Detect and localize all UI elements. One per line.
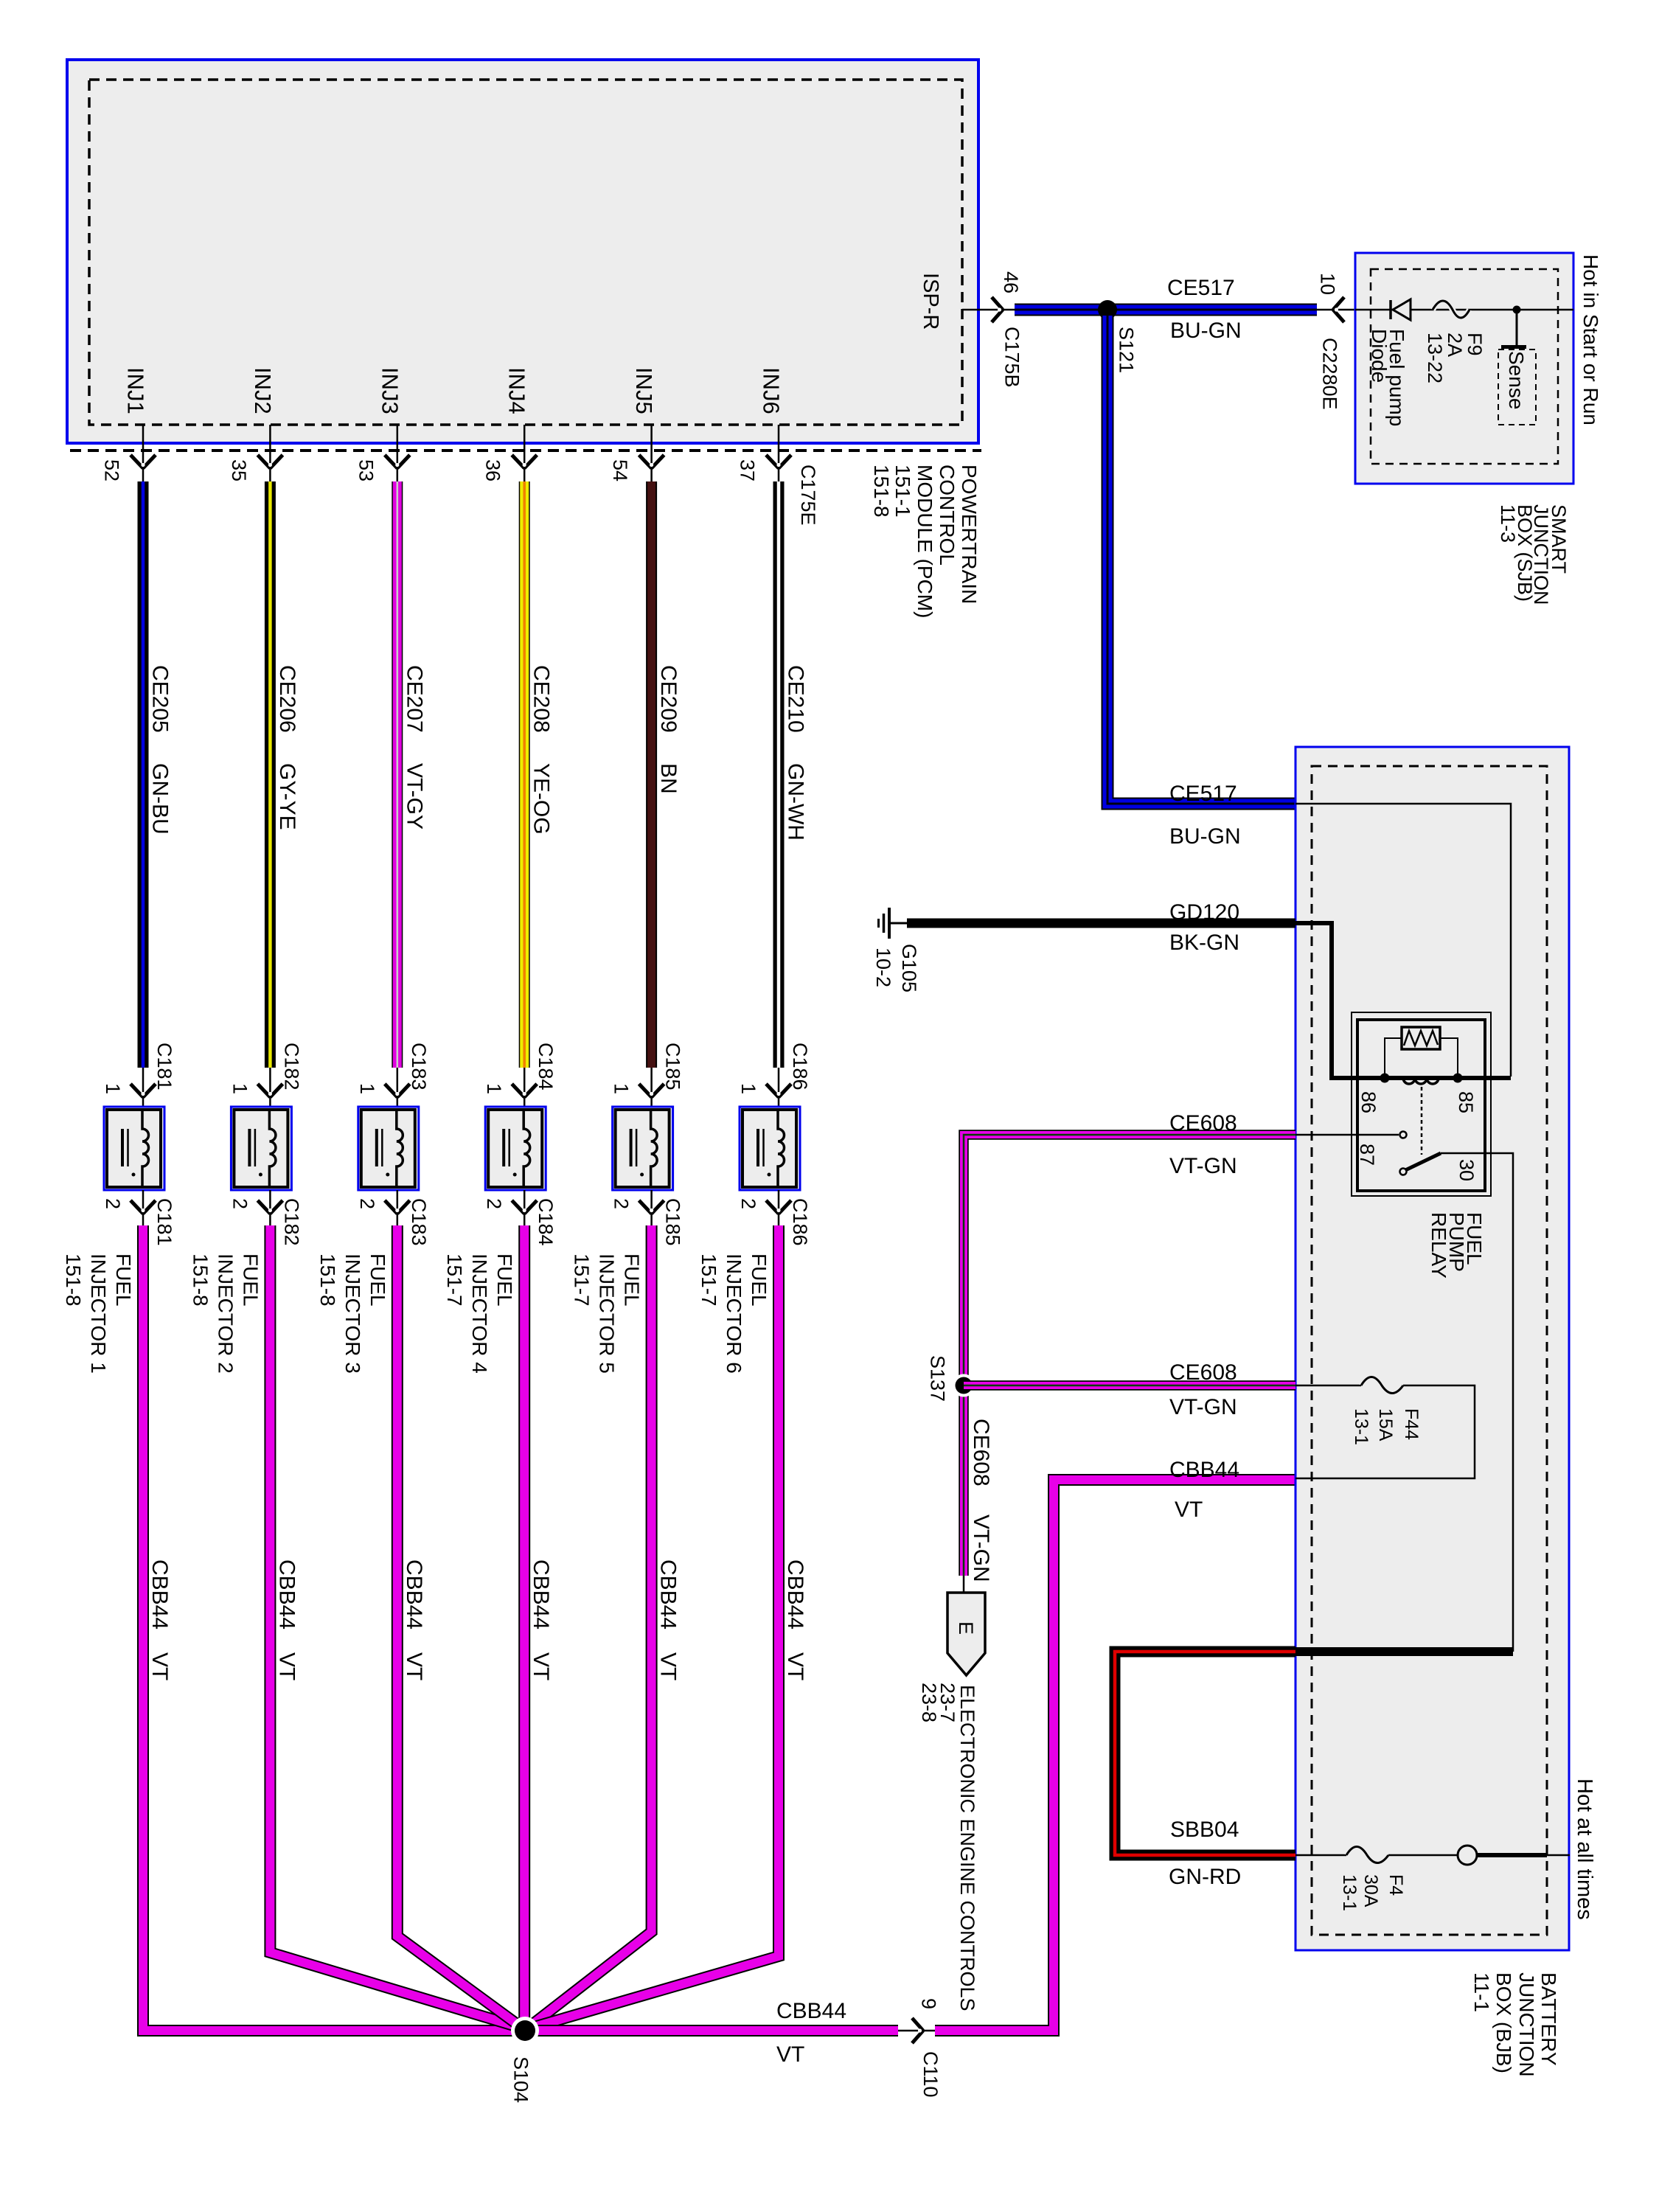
connector arrow C181 pin 1 <box>131 1084 143 1097</box>
svg-text:CBB44: CBB44 <box>274 1559 299 1630</box>
svg-text:C183: C183 <box>408 1198 430 1246</box>
svg-text:1: 1 <box>229 1083 251 1094</box>
wire SBB04 GN-RD loop outside BJB <box>1115 1652 1295 1855</box>
svg-text:ELECTRONIC ENGINE CONTROLS: ELECTRONIC ENGINE CONTROLS <box>956 1685 978 2011</box>
svg-text:CBB44: CBB44 <box>776 1999 846 2023</box>
svg-text:S121: S121 <box>1116 327 1138 373</box>
wire CE608 VT-GN from relay pin 87 to S137 <box>964 1135 1295 1576</box>
PCM pin stub wire INJ3 <box>397 425 399 481</box>
svg-text:Diode: Diode <box>1368 329 1391 383</box>
wire CE206 GY-YE (PCM pin 35 to fuel injector 2) <box>265 481 276 1068</box>
connector arrow C181 pin 2 <box>131 1200 143 1214</box>
connector arrow C183 pin 2 <box>385 1200 397 1214</box>
wire GD120 BK-GN ground wire <box>907 919 1295 928</box>
svg-text:CE207: CE207 <box>402 665 426 733</box>
injector 2 solenoid coil <box>269 1110 276 1187</box>
svg-text:INJ2: INJ2 <box>250 367 276 414</box>
svg-text:FUEL: FUEL <box>748 1253 771 1307</box>
connector arrow C182 pin 1 <box>257 1084 270 1097</box>
inline connector E (to electronic engine controls) <box>947 1593 985 1675</box>
svg-text:F44: F44 <box>1401 1408 1422 1440</box>
svg-text:2: 2 <box>102 1198 124 1209</box>
svg-text:151-7: 151-7 <box>698 1253 720 1307</box>
connector arrow C183 pin 1 <box>385 1084 397 1097</box>
svg-text:VT-GN: VT-GN <box>969 1514 993 1582</box>
wire CBB44 VT from C110 to battery junction box fuse F44 <box>935 1480 1295 2031</box>
svg-text:VT: VT <box>1175 1498 1203 1522</box>
node dot at SJB sense tap <box>1513 306 1521 314</box>
wire inside SJB to Hot in Start or Run <box>1355 309 1573 311</box>
svg-text:86: 86 <box>1357 1091 1380 1113</box>
battery feed wire Hot at all times <box>1477 1853 1547 1857</box>
wire CBB44 VT return from injector 3 to splice S104 <box>397 1225 520 2026</box>
svg-text:Hot in Start or Run: Hot in Start or Run <box>1579 254 1602 425</box>
fuse F44 15A symbol <box>1361 1377 1403 1394</box>
svg-text:151-7: 151-7 <box>571 1253 594 1307</box>
connector arrow C184 pin 2 <box>512 1200 524 1214</box>
svg-text:C182: C182 <box>280 1043 302 1091</box>
svg-text:GN-BU: GN-BU <box>148 763 173 835</box>
svg-text:C182: C182 <box>280 1198 302 1246</box>
injector 3 polarity dot <box>386 1173 389 1177</box>
svg-text:CE608: CE608 <box>1169 1360 1237 1385</box>
svg-text:CE608: CE608 <box>1169 1111 1237 1135</box>
svg-text:151-8: 151-8 <box>316 1253 339 1307</box>
svg-text:CE206: CE206 <box>275 665 299 733</box>
svg-text:BOX (BJB): BOX (BJB) <box>1492 1972 1515 2073</box>
svg-text:RELAY: RELAY <box>1427 1212 1450 1279</box>
svg-text:37: 37 <box>737 459 759 481</box>
svg-text:1: 1 <box>102 1083 124 1094</box>
svg-text:53: 53 <box>355 459 377 481</box>
fuse F4 30A symbol <box>1346 1847 1388 1863</box>
wire inside BJB from fuse F44 to CBB44 exit <box>1295 1385 1475 1478</box>
wire from relay pin 30 down to SBB04 feed <box>1441 1153 1513 1652</box>
connector arrow C185 pin 2 <box>639 1200 652 1214</box>
svg-text:1: 1 <box>483 1083 505 1094</box>
pin lead into injector 1 <box>142 1068 145 1107</box>
svg-text:INJECTOR 2: INJECTOR 2 <box>214 1253 237 1374</box>
connector arrow C182 pin 2 <box>257 1200 270 1214</box>
svg-text:CBB44: CBB44 <box>656 1559 681 1630</box>
svg-text:C2280E: C2280E <box>1319 338 1341 410</box>
wire CE209 BN (PCM pin 54 to fuel injector 5) <box>646 481 657 1068</box>
svg-text:C185: C185 <box>662 1198 684 1246</box>
relay suppression resistor <box>1402 1027 1440 1049</box>
svg-text:CBB44: CBB44 <box>783 1559 807 1630</box>
Sense dashed box <box>1498 349 1536 425</box>
svg-text:C184: C184 <box>535 1043 557 1091</box>
injector 6 polarity dot <box>768 1173 771 1177</box>
svg-text:23-8: 23-8 <box>918 1683 940 1722</box>
fuel injector 2 component box <box>231 1107 291 1190</box>
svg-text:FUEL: FUEL <box>239 1253 262 1307</box>
svg-text:35: 35 <box>228 459 250 481</box>
injector 5 polarity dot <box>640 1173 644 1177</box>
svg-text:Hot at all times: Hot at all times <box>1573 1778 1596 1920</box>
wire inside BJB from CE608 to fuse F44 <box>1295 1385 1361 1387</box>
svg-text:POWERTRAIN: POWERTRAIN <box>958 465 981 604</box>
wire CBB44 VT return from injector 5 to splice S104 <box>530 1225 652 2026</box>
connector arrow pin 54 <box>639 455 652 468</box>
svg-text:S104: S104 <box>510 2056 532 2103</box>
wire inside BJB from CE517 to relay coil pin 85 <box>1295 804 1511 1077</box>
ground symbol G105 <box>888 908 891 939</box>
svg-text:46: 46 <box>1000 271 1022 293</box>
svg-text:85: 85 <box>1455 1091 1477 1113</box>
svg-text:FUEL: FUEL <box>112 1253 135 1307</box>
connector arrow pin 35 <box>257 455 270 468</box>
svg-text:10: 10 <box>1317 273 1339 295</box>
pin lead out of injector 5 <box>650 1190 653 1225</box>
injector 1 polarity dot <box>132 1173 136 1177</box>
SMART JUNCTION BOX (SJB) <box>1355 253 1573 484</box>
svg-text:1: 1 <box>737 1083 759 1094</box>
connector arrow C186 pin 2 <box>766 1200 779 1214</box>
SJB inner dashed border <box>1371 269 1558 464</box>
svg-text:S137: S137 <box>927 1355 949 1402</box>
injector 3 solenoid coil <box>397 1110 403 1187</box>
splice S104 junction dot <box>511 2017 539 2045</box>
svg-text:BU-GN: BU-GN <box>1170 319 1242 343</box>
pin lead into SJB <box>1317 309 1357 311</box>
svg-text:11-1: 11-1 <box>1470 1972 1493 2012</box>
svg-text:54: 54 <box>609 459 631 481</box>
svg-text:VT: VT <box>529 1652 553 1680</box>
svg-text:VT: VT <box>783 1652 807 1680</box>
svg-text:INJECTOR 3: INJECTOR 3 <box>341 1253 364 1374</box>
injector 3 solenoid core bars <box>375 1129 378 1166</box>
pin lead out of injector 3 <box>397 1190 399 1225</box>
svg-text:GN-RD: GN-RD <box>1169 1865 1241 1889</box>
svg-text:CBB44: CBB44 <box>147 1559 172 1630</box>
wire CE208 YE-OG (PCM pin 36 to fuel injector 4) <box>519 481 530 1068</box>
svg-text:JUNCTION: JUNCTION <box>1515 1972 1538 2077</box>
fuel injector 4 component box <box>485 1107 546 1190</box>
svg-text:1: 1 <box>611 1083 633 1094</box>
svg-text:C186: C186 <box>789 1198 811 1246</box>
wire from fuse F4 to battery feed terminal <box>1388 1854 1458 1857</box>
injector 1 solenoid core bars <box>121 1129 124 1166</box>
svg-text:SBB04: SBB04 <box>1170 1818 1239 1842</box>
injector 2 solenoid core bars <box>248 1129 251 1166</box>
svg-text:CE517: CE517 <box>1167 276 1235 300</box>
svg-text:151-8: 151-8 <box>870 465 893 518</box>
svg-text:36: 36 <box>482 459 504 481</box>
connector arrow C184 pin 1 <box>512 1084 524 1097</box>
svg-text:INJ1: INJ1 <box>123 367 149 414</box>
splice S121 junction dot <box>1098 300 1117 319</box>
svg-text:C183: C183 <box>408 1043 430 1091</box>
svg-text:INJ4: INJ4 <box>504 367 530 414</box>
svg-text:CE517: CE517 <box>1169 782 1237 806</box>
svg-text:Sense: Sense <box>1505 351 1528 409</box>
pin lead through connector C110 <box>898 2030 935 2032</box>
svg-text:INJ6: INJ6 <box>759 367 785 414</box>
svg-text:CE210: CE210 <box>784 665 808 733</box>
BJB inner dashed border <box>1312 766 1547 1935</box>
svg-text:C175B: C175B <box>1001 327 1023 388</box>
connector arrow C186 pin 1 <box>766 1084 779 1097</box>
fuel pump diode symbol <box>1389 300 1392 319</box>
svg-text:52: 52 <box>101 459 123 481</box>
PCM pin stub wire INJ4 <box>524 425 526 481</box>
sense tap wire <box>1516 310 1518 345</box>
svg-text:BU-GN: BU-GN <box>1169 824 1241 849</box>
PCM pin stub wire INJ6 <box>778 425 780 481</box>
wire CE207 VT-GY (PCM pin 53 to fuel injector 3) <box>392 481 403 1068</box>
svg-text:FUEL: FUEL <box>621 1253 644 1307</box>
svg-text:13-1: 13-1 <box>1339 1874 1360 1911</box>
injector 2 polarity dot <box>259 1173 262 1177</box>
svg-text:E: E <box>955 1621 977 1635</box>
svg-text:VT: VT <box>147 1652 172 1680</box>
svg-text:VT: VT <box>402 1652 426 1680</box>
relay coil windings <box>1403 1078 1439 1084</box>
svg-text:15A: 15A <box>1375 1408 1396 1441</box>
svg-text:CE209: CE209 <box>656 665 681 733</box>
svg-text:CBB44: CBB44 <box>1169 1458 1239 1482</box>
svg-text:30: 30 <box>1455 1159 1478 1181</box>
relay coil junction dot pin 86 <box>1380 1074 1390 1083</box>
fuel injector 6 component box <box>740 1107 800 1190</box>
svg-text:CBB44: CBB44 <box>529 1559 553 1630</box>
svg-text:30A: 30A <box>1360 1874 1381 1907</box>
PCM pin stub wire INJ5 <box>650 425 653 481</box>
pin lead out of injector 6 <box>778 1190 780 1225</box>
splice S137 junction dot <box>953 1374 975 1397</box>
svg-text:VT-GN: VT-GN <box>1169 1154 1237 1178</box>
relay switch blade <box>1400 1169 1407 1175</box>
fuel injector 1 component box <box>104 1107 164 1190</box>
lead into connector E <box>963 1576 965 1594</box>
wire inside BJB from relay pin 30 to SBB04 <box>1295 1647 1513 1656</box>
BATTERY JUNCTION BOX (BJB) <box>1295 747 1569 1950</box>
svg-text:F9: F9 <box>1464 333 1486 356</box>
wire CE517 BU-GN from C175B to SJB <box>1015 304 1317 316</box>
pin lead into injector 4 <box>524 1068 526 1107</box>
svg-text:MODULE (PCM): MODULE (PCM) <box>914 465 936 618</box>
svg-text:YE-OG: YE-OG <box>529 763 554 835</box>
wire CBB44 VT return from injector 4 to splice S104 <box>518 1225 530 2025</box>
connector arrow C110 pin 9 <box>912 2018 923 2031</box>
svg-text:C185: C185 <box>662 1043 684 1091</box>
wire CE517 BU-GN from S121 down to BJB <box>1107 316 1295 804</box>
svg-text:INJ5: INJ5 <box>631 367 657 414</box>
svg-text:BK-GN: BK-GN <box>1169 931 1239 955</box>
connector arrow C185 pin 1 <box>639 1084 652 1097</box>
svg-text:151-7: 151-7 <box>443 1253 466 1307</box>
svg-text:151-1: 151-1 <box>891 465 914 518</box>
svg-text:C181: C181 <box>153 1198 175 1246</box>
svg-text:13-1: 13-1 <box>1351 1408 1371 1445</box>
injector 4 polarity dot <box>513 1173 517 1177</box>
svg-text:13-22: 13-22 <box>1424 333 1446 383</box>
pin lead out of injector 2 <box>269 1190 271 1225</box>
svg-text:2: 2 <box>611 1198 633 1209</box>
connector arrow pin 52 <box>131 455 143 468</box>
relay actuator dashed link <box>1421 1087 1423 1155</box>
svg-text:9: 9 <box>918 1998 940 2009</box>
svg-text:2A: 2A <box>1444 333 1466 357</box>
svg-text:2: 2 <box>737 1198 759 1209</box>
svg-text:BN: BN <box>656 763 681 794</box>
injector 1 solenoid coil <box>142 1110 149 1187</box>
wire inside BJB from SBB04 to fuse F4 <box>1295 1854 1346 1857</box>
fuel injector 5 component box <box>613 1107 673 1190</box>
svg-text:VT-GY: VT-GY <box>402 763 426 829</box>
svg-text:ISP-R: ISP-R <box>919 273 942 330</box>
wire inside BJB from GD120 to relay coil pin 86 <box>1295 923 1511 1078</box>
svg-text:CONTROL: CONTROL <box>936 465 959 566</box>
svg-text:INJ3: INJ3 <box>377 367 403 414</box>
fuel pump relay outer box <box>1352 1012 1491 1196</box>
pin lead out of injector 1 <box>142 1190 145 1225</box>
injector 4 solenoid coil <box>524 1110 530 1187</box>
pin lead into injector 3 <box>397 1068 399 1107</box>
wire CBB44 VT return from injector 1 to splice S104 <box>143 1225 515 2031</box>
svg-text:2: 2 <box>356 1198 378 1209</box>
svg-text:CE205: CE205 <box>148 665 173 733</box>
resistor parallel links <box>1385 1038 1402 1077</box>
connector arrow C175B pin 46 <box>992 297 1003 310</box>
connector C175E dashed line under PCM <box>70 449 981 452</box>
svg-text:10-2: 10-2 <box>872 947 894 987</box>
battery feed terminal circle <box>1458 1846 1477 1865</box>
svg-text:C181: C181 <box>153 1043 175 1091</box>
PCM inner dashed border <box>89 80 962 425</box>
injector 5 solenoid core bars <box>630 1129 633 1166</box>
svg-text:VT-GN: VT-GN <box>1169 1395 1237 1419</box>
relay pin 87 terminal <box>1400 1132 1407 1138</box>
svg-text:C186: C186 <box>789 1043 811 1091</box>
pin lead into injector 6 <box>778 1068 780 1107</box>
svg-text:151-8: 151-8 <box>62 1253 85 1307</box>
svg-text:GY-YE: GY-YE <box>275 763 299 830</box>
svg-text:FUEL: FUEL <box>366 1253 389 1307</box>
pin lead into injector 2 <box>269 1068 271 1107</box>
svg-text:CBB44: CBB44 <box>402 1559 426 1630</box>
connector arrow pin 37 <box>766 455 779 468</box>
svg-text:1: 1 <box>356 1083 378 1094</box>
svg-text:GD120: GD120 <box>1169 900 1239 925</box>
svg-text:VT: VT <box>274 1652 299 1680</box>
wire CBB44 VT from splice S104 to connector C110 <box>525 2025 898 2037</box>
PCM pin stub wire INJ1 <box>142 425 145 481</box>
injector 4 solenoid core bars <box>502 1129 505 1166</box>
svg-text:BATTERY: BATTERY <box>1537 1972 1560 2066</box>
svg-text:G105: G105 <box>898 944 920 992</box>
svg-text:C184: C184 <box>535 1198 557 1246</box>
pin lead relay 87 <box>1295 1134 1399 1136</box>
wire CE205 GN-BU (PCM pin 52 to fuel injector 1) <box>138 481 149 1068</box>
svg-text:CE608: CE608 <box>969 1419 993 1486</box>
svg-text:2: 2 <box>229 1198 251 1209</box>
connector arrow pin 36 <box>512 455 524 468</box>
svg-text:INJECTOR 1: INJECTOR 1 <box>87 1253 110 1374</box>
svg-text:11-3: 11-3 <box>1497 504 1519 543</box>
svg-text:VT: VT <box>776 2042 804 2067</box>
pin lead out of injector 4 <box>524 1190 526 1225</box>
injector 6 solenoid core bars <box>757 1129 759 1166</box>
PCM pin stub wire INJ2 <box>269 425 271 481</box>
fuse F9 2A symbol <box>1433 301 1470 318</box>
svg-text:INJECTOR 5: INJECTOR 5 <box>596 1253 619 1374</box>
svg-text:CE208: CE208 <box>529 665 554 733</box>
wire CBB44 VT return from injector 2 to splice S104 <box>270 1225 518 2027</box>
ground lead G105 <box>889 922 907 925</box>
wire CE608 VT-GN from S137 to BJB fuse F44 <box>964 1380 1295 1391</box>
svg-text:F4: F4 <box>1385 1874 1406 1896</box>
svg-text:INJECTOR 6: INJECTOR 6 <box>723 1253 745 1374</box>
svg-text:FUEL: FUEL <box>493 1253 516 1307</box>
fuel injector 3 component box <box>358 1107 419 1190</box>
svg-text:VT: VT <box>656 1652 681 1680</box>
svg-text:151-8: 151-8 <box>189 1253 212 1307</box>
pin lead into injector 5 <box>650 1068 653 1107</box>
injector 5 solenoid coil <box>651 1110 658 1187</box>
svg-text:C110: C110 <box>919 2051 942 2098</box>
wire CE210 GN-WH (PCM pin 37 to fuel injector 6) <box>773 481 785 1068</box>
svg-text:INJECTOR 4: INJECTOR 4 <box>468 1253 491 1374</box>
svg-text:2: 2 <box>483 1198 505 1209</box>
PCM module box (POWERTRAIN CONTROL MODULE) <box>67 60 978 443</box>
svg-text:87: 87 <box>1356 1144 1378 1166</box>
connector arrow pin 53 <box>385 455 397 468</box>
PCM pin ISP-R stub wire <box>962 309 1015 311</box>
connector arrow C2280E pin 10 <box>1333 297 1344 310</box>
relay coil junction dot pin 85 <box>1453 1074 1463 1083</box>
injector 6 solenoid coil <box>778 1110 785 1187</box>
wire CBB44 VT return from injector 6 to splice S104 <box>532 1225 779 2028</box>
svg-text:GN-WH: GN-WH <box>784 763 808 841</box>
svg-text:C175E: C175E <box>797 465 819 526</box>
